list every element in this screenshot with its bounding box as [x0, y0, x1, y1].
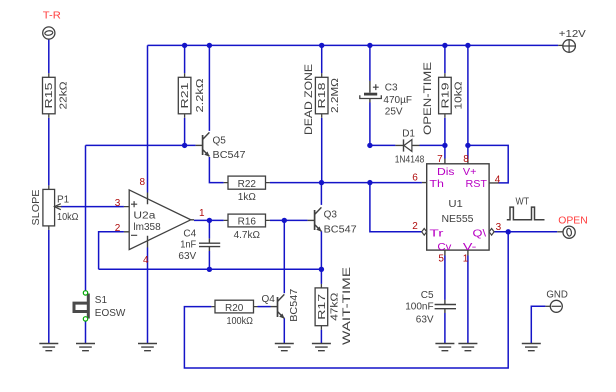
wire: P1 bottom to ground: [48, 230, 50, 344]
wire: S1 bottom to ground: [85, 321, 87, 343]
op-amp U2a lm358: [124, 207, 194, 232]
resistor R15: [43, 73, 56, 118]
capacitor C3 (electrolytic): [369, 81, 371, 103]
svg-text:V-: V-: [463, 242, 477, 253]
svg-text:S1: S1: [95, 295, 108, 306]
svg-text:T-R: T-R: [43, 11, 61, 22]
wire: Q4 emitter to ground: [283, 318, 285, 343]
ground (S1): [76, 344, 95, 351]
junction: rail/R18: [319, 43, 324, 48]
wire: Q5 base net down to switch S1: [85, 145, 87, 290]
wire: Q3 emitter down to bottom node: [320, 231, 322, 269]
wire: C3 bottom down to D1 node: [369, 103, 371, 146]
capacitor C4: [199, 239, 220, 251]
svg-text:Cv: Cv: [437, 242, 451, 253]
svg-text:C5: C5: [421, 290, 434, 301]
ground (Q4 emitter): [275, 344, 294, 351]
svg-text:C4: C4: [183, 229, 196, 240]
svg-text:1: 1: [199, 208, 205, 219]
svg-text:Q4: Q4: [262, 294, 276, 305]
svg-text:U2a: U2a: [133, 210, 156, 221]
resistor R16: [224, 214, 270, 227]
wire: R21 bottom to Q5 base: [184, 118, 186, 146]
resistor R17: [315, 284, 328, 330]
svg-text:P1: P1: [57, 194, 70, 205]
NE555 Q pin diamond: [489, 229, 494, 236]
ground (P1): [39, 344, 58, 351]
wire: output node down to C4 top: [208, 220, 210, 238]
svg-text:R15: R15: [44, 82, 55, 109]
svg-text:Q\: Q\: [473, 229, 487, 240]
svg-text:470µF: 470µF: [383, 95, 412, 106]
NE555 Tr pin diamond: [422, 229, 427, 236]
wire: C4 bottom to feedback rail: [208, 251, 210, 269]
switch S1 EOSW: [74, 294, 88, 319]
wire: R19 bottom to NE555 pin 7: [444, 118, 446, 159]
wire: R18 bottom to node: [321, 118, 323, 183]
junction: op-amp output node: [207, 218, 212, 223]
svg-text:Q3: Q3: [324, 209, 338, 220]
svg-text:SLOPE: SLOPE: [31, 189, 42, 225]
svg-text:63V: 63V: [178, 251, 196, 262]
wire: +12V top supply rail: [148, 44, 559, 46]
wire: R16 right to Q3 base node: [270, 219, 308, 221]
junction: C3/D1: [367, 143, 372, 148]
svg-text:1N4148: 1N4148: [395, 154, 425, 165]
terminal OPEN: [557, 231, 563, 233]
junction: rail/R19: [442, 43, 447, 48]
svg-text:1: 1: [463, 253, 469, 264]
svg-text:2: 2: [412, 221, 418, 232]
svg-text:5: 5: [438, 253, 444, 264]
svg-text:4.7kΩ: 4.7kΩ: [234, 230, 261, 241]
junction: D1/R19/pin7: [442, 143, 447, 148]
svg-text:DEAD ZONE: DEAD ZONE: [303, 64, 315, 135]
wire: GND terminal to ground: [531, 306, 545, 343]
transistor Q4 BC547: [271, 294, 285, 318]
wire: op-amp output to R16 left: [194, 219, 224, 221]
svg-text:OPEN-TIME: OPEN-TIME: [422, 62, 434, 135]
junction: R22/R18/Q3/Th: [319, 180, 324, 185]
wire: C5 bottom to ground: [444, 313, 446, 344]
wire: op-amp pin 2 to feedback rail: [99, 232, 124, 269]
wire: R20 right to Q4 base: [258, 306, 271, 308]
junction: Th/Tr branch: [367, 180, 372, 185]
wire: rail to C3 top: [369, 45, 371, 81]
junction: R16/Q3 base/Q4 collector: [282, 218, 287, 223]
svg-text:WT: WT: [516, 197, 530, 208]
svg-text:R21: R21: [180, 82, 191, 109]
svg-text:EOSW: EOSW: [95, 308, 126, 319]
svg-text:R20: R20: [225, 303, 244, 314]
svg-text:2: 2: [115, 223, 121, 234]
svg-text:3: 3: [115, 198, 121, 209]
ground (R17): [312, 344, 331, 351]
junction: C4/feedback rail: [207, 267, 212, 272]
svg-text:V+: V+: [463, 167, 477, 178]
svg-text:lm358: lm358: [133, 222, 161, 233]
svg-text:C3: C3: [385, 82, 398, 93]
svg-text:U1: U1: [448, 199, 463, 210]
wire: T-R terminal to R15 top: [48, 39, 50, 73]
wire: node to NE555 Th pin 6: [322, 182, 422, 184]
transistor Q5 BC547: [196, 132, 210, 156]
potentiometer P1: [43, 185, 62, 230]
resistor R18: [315, 73, 328, 118]
wire: C3 node down to Tr pin 2: [370, 183, 422, 232]
terminal +12V: [558, 44, 563, 46]
svg-text:4: 4: [495, 175, 501, 186]
junction: rail/R21: [182, 43, 187, 48]
wire: rail to NE555 pin 8: [467, 45, 469, 158]
terminal T-R: [43, 27, 55, 39]
wire: R22 right to node: [270, 182, 322, 184]
resistor R20: [211, 300, 257, 313]
wire: rail to R19 top: [444, 45, 446, 73]
svg-text:BC547: BC547: [289, 288, 300, 321]
wire: feedback bottom rail: [99, 268, 322, 270]
wire: rail down to op-amp pin 8: [147, 45, 149, 192]
wire: NE555 pin 5 to C5: [444, 256, 446, 300]
svg-text:1kΩ: 1kΩ: [238, 192, 257, 203]
wire: NE555 pin 1 to ground: [467, 256, 469, 344]
svg-text:47kΩ: 47kΩ: [329, 292, 340, 321]
svg-text:4: 4: [143, 255, 149, 266]
svg-text:6: 6: [412, 172, 418, 183]
svg-text:1nF: 1nF: [180, 239, 196, 250]
junction: rail/C3: [367, 43, 372, 48]
wire: NE555 Q output loop to R20 left: [184, 232, 508, 368]
ground (GND terminal): [522, 344, 541, 351]
wire: R15 bottom to P1 top: [48, 118, 50, 186]
resistor R22: [224, 176, 270, 189]
svg-text:25V: 25V: [385, 107, 403, 118]
diode D1 1N4148: [395, 144, 419, 146]
svg-text:63V: 63V: [416, 315, 434, 326]
svg-text:R19: R19: [440, 82, 451, 109]
svg-text:3: 3: [496, 222, 502, 233]
svg-text:RST: RST: [466, 179, 488, 190]
terminal GND: [545, 305, 550, 307]
wire: Q pin 3 to OPEN terminal: [494, 231, 557, 233]
svg-text:7: 7: [437, 154, 443, 165]
svg-text:WAIT-TIME: WAIT-TIME: [341, 267, 353, 345]
wire: Q5 emitter to R22 left: [209, 157, 223, 183]
wire: rail to R18 top: [321, 45, 323, 73]
wire: rail down to Q5 collector: [208, 45, 210, 130]
wire: D1 node left lead: [370, 144, 396, 146]
IC U1 NE555: [427, 164, 489, 250]
svg-text:8: 8: [463, 154, 469, 165]
wire: pin 8 node to RST pin 4: [468, 145, 508, 183]
waveform pulses: [507, 207, 545, 220]
svg-text:NE555: NE555: [442, 214, 474, 225]
svg-text:Tr: Tr: [429, 229, 444, 240]
wire: top rail corner to R21 top: [184, 45, 186, 73]
wire: Q5 base horizontal: [86, 144, 196, 146]
junction: pin8/RST branch: [465, 143, 470, 148]
wire: op-amp pin 4 down to ground: [147, 248, 149, 344]
svg-text:GND: GND: [546, 290, 568, 301]
resistor R19: [439, 73, 452, 118]
svg-text:R22: R22: [238, 179, 257, 190]
wire: R17 top lead: [320, 269, 322, 284]
junction: R21/Q5 base: [182, 143, 187, 148]
svg-text:R16: R16: [238, 217, 257, 228]
wire: R17 bottom to ground: [320, 330, 322, 344]
svg-text:Th: Th: [429, 179, 444, 190]
ground (NE555 pin 1): [458, 344, 477, 351]
svg-text:100nF: 100nF: [405, 302, 433, 313]
svg-text:R17: R17: [317, 293, 328, 320]
svg-text:2.2kΩ: 2.2kΩ: [195, 78, 206, 113]
svg-text:R18: R18: [317, 82, 328, 109]
svg-text:8: 8: [140, 177, 146, 188]
transistor Q3 BC547: [308, 207, 322, 231]
svg-text:Dis: Dis: [437, 167, 455, 178]
svg-text:100kΩ: 100kΩ: [226, 316, 253, 327]
ground (C5): [435, 344, 454, 351]
svg-text:D1: D1: [402, 128, 415, 139]
svg-text:BC547: BC547: [213, 150, 246, 161]
svg-text:OPEN: OPEN: [558, 215, 588, 226]
junction: Q3 emitter/R17/feedback rail: [319, 267, 324, 272]
junction: Q output/OPEN/loop: [506, 229, 511, 234]
wire: D1 to pin 7 node: [420, 144, 445, 146]
svg-text:+12V: +12V: [559, 29, 586, 40]
wire: node down to Q3 collector: [320, 183, 322, 205]
svg-text:10kΩ: 10kΩ: [453, 81, 464, 110]
ground (op-amp pin 4): [138, 344, 157, 351]
junction: rail/NE555 pin 8: [465, 43, 470, 48]
svg-text:BC547: BC547: [324, 224, 357, 235]
resistor R21: [178, 73, 191, 118]
wire: P1 wiper to op-amp pin 3: [61, 206, 124, 208]
capacitor C5: [435, 300, 456, 313]
svg-text:10kΩ: 10kΩ: [57, 212, 79, 223]
svg-text:22kΩ: 22kΩ: [59, 81, 70, 110]
junction: rail/Q5 collector: [207, 43, 212, 48]
svg-text:Q5: Q5: [213, 135, 227, 146]
wire: Q3 base node down to Q4 collector: [283, 220, 285, 293]
svg-text:2.2MΩ: 2.2MΩ: [330, 77, 341, 113]
